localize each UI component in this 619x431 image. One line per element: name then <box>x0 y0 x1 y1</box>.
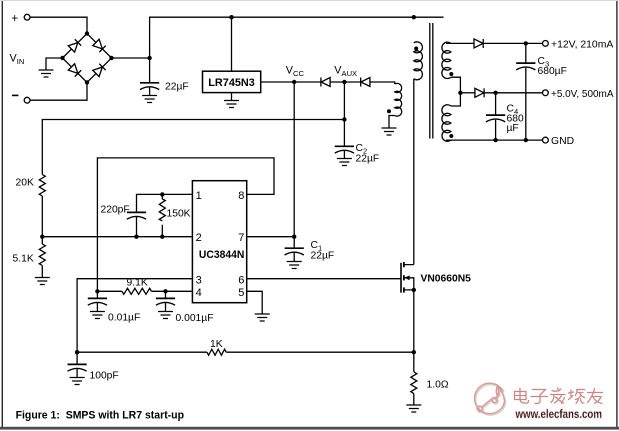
wire Vaux to aux winding <box>370 82 395 84</box>
capacitor 220pF <box>127 212 146 219</box>
wire 0.001uF stubs <box>165 291 167 311</box>
wire C2 bottom stub <box>343 151 345 159</box>
wire pin8 loop <box>97 158 274 291</box>
wire 20K to 5.1K node to pin2 <box>42 196 192 244</box>
svg-text:22µF: 22µF <box>311 251 335 262</box>
wire 100pF stubs <box>76 352 78 377</box>
capacitor C3 <box>516 63 535 70</box>
IC U1 UC3844N box <box>192 181 246 303</box>
wire 5.1K to ground <box>41 266 43 278</box>
transistor Q1 VN0660N5 <box>401 262 414 293</box>
watermark logo <box>475 383 506 415</box>
phase dot aux <box>387 109 391 113</box>
svg-text:7: 7 <box>238 232 244 244</box>
wire pin3 to current sense node <box>77 279 192 353</box>
ground C1 <box>287 262 302 269</box>
top faint edge <box>0 0 619 1</box>
svg-text:5.1K: 5.1K <box>13 254 34 265</box>
wire + terminal to bridge top <box>30 17 87 33</box>
wire gnd rail <box>446 139 543 141</box>
ground pin5 <box>255 314 270 321</box>
primary winding <box>414 42 423 80</box>
phase dot primary <box>414 47 418 51</box>
svg-text:150K: 150K <box>167 209 191 220</box>
wire Vaux down to C2 <box>343 82 345 146</box>
wire sec1 bottom to tap <box>451 77 461 106</box>
svg-text:680µF: 680µF <box>538 66 567 77</box>
wire bridge right node to 22uF node <box>112 57 150 59</box>
wire bridge left node to ground <box>46 58 63 70</box>
diode 5V output <box>475 88 484 97</box>
svg-text:+12V, 210mA: +12V, 210mA <box>551 39 613 50</box>
svg-text:6: 6 <box>238 274 244 286</box>
wire aux winding exit to ground <box>389 116 395 129</box>
svg-text:1K: 1K <box>210 339 223 350</box>
IC pin numbers <box>196 190 245 299</box>
ground 0.001uF <box>158 312 173 319</box>
wire source down to 1 ohm <box>413 290 415 372</box>
svg-text:0.01µF: 0.01µF <box>108 313 140 324</box>
svg-text:9.1K: 9.1K <box>127 278 148 289</box>
IC U2 LR745N3 box <box>203 71 261 92</box>
secondary winding 1 <box>442 42 451 78</box>
ground 22uF input <box>142 96 157 103</box>
wire 22uF node up and top rail <box>150 17 444 58</box>
svg-text:220pF: 220pF <box>101 205 130 216</box>
ground 5.1K <box>35 278 50 285</box>
wire diode to Vaux <box>330 81 360 83</box>
ground 100pF <box>70 378 85 385</box>
left page border <box>2 0 3 429</box>
svg-text:20K: 20K <box>16 178 34 189</box>
watermark text dianzifashaoyou <box>515 388 603 404</box>
wire 150K stubs <box>161 194 163 236</box>
label minus <box>12 94 18 96</box>
svg-text:22µF: 22µF <box>356 154 380 165</box>
capacitor 0.001uF <box>156 298 175 305</box>
ground aux winding <box>382 128 397 135</box>
wire pin4 row <box>97 290 192 292</box>
bottom gray bar <box>0 427 619 430</box>
svg-text:100pF: 100pF <box>90 371 119 382</box>
svg-text:3: 3 <box>196 274 202 286</box>
bridge diode D3 bottom-left <box>68 64 81 77</box>
bridge diode D4 bottom-right <box>93 64 106 77</box>
capacitor 0.01uF <box>88 298 107 305</box>
svg-text:1.0Ω: 1.0Ω <box>427 380 449 391</box>
capacitor C1 <box>285 248 304 255</box>
svg-text:5: 5 <box>238 287 244 299</box>
wire - terminal to bridge bottom <box>30 83 87 101</box>
wire C1 stubs <box>293 237 295 262</box>
svg-text:4: 4 <box>196 287 202 299</box>
svg-text:Figure 1: SMPS with LR7 start: Figure 1: SMPS with LR7 start-up <box>16 410 185 422</box>
diode 12V output <box>474 39 483 48</box>
node junction dots <box>40 15 528 354</box>
wire 12V rail <box>484 42 543 44</box>
right page border <box>616 0 617 429</box>
wire drain up to primary <box>413 79 415 265</box>
resistor 5.1K <box>39 244 45 266</box>
svg-text:LR745N3: LR745N3 <box>208 77 255 89</box>
svg-text:8: 8 <box>238 190 244 202</box>
svg-text:22µF: 22µF <box>165 82 189 93</box>
wire LR745N3 top stub <box>231 17 233 71</box>
wire pin5 to ground <box>247 291 263 314</box>
wire 5V rail <box>485 92 543 94</box>
wire 1 ohm to ground <box>413 394 415 405</box>
bridge diode D2 top-right <box>93 39 106 52</box>
wire pin6 to gate <box>247 278 401 280</box>
resistor 1.0 ohm <box>411 372 417 394</box>
svg-text:µF: µF <box>507 123 519 134</box>
phase dot sec2 <box>449 134 453 138</box>
ground bridge left <box>39 70 54 77</box>
svg-text:0.001µF: 0.001µF <box>176 313 214 324</box>
svg-text:www.elecfans.com: www.elecfans.com <box>515 409 602 421</box>
diode winding to Vaux <box>361 78 370 87</box>
ground 1 ohm <box>406 405 421 412</box>
svg-text:2: 2 <box>196 232 202 244</box>
wire 22uF input stubs <box>149 58 151 96</box>
resistor 20K <box>39 175 45 197</box>
aux winding <box>395 83 402 116</box>
wire divider sense line <box>42 120 344 175</box>
transformer T1 <box>395 23 451 141</box>
wire 1K row <box>77 351 414 353</box>
svg-text:+5.0V, 500mA: +5.0V, 500mA <box>551 89 614 100</box>
wire pin7 <box>247 236 295 238</box>
wire 220pF bottom stub <box>136 217 138 237</box>
svg-text:1: 1 <box>196 190 202 202</box>
svg-text:GND: GND <box>551 136 574 147</box>
wire tap to 5V diode <box>460 92 474 94</box>
capacitor C4 <box>486 115 505 122</box>
terminal circles <box>24 14 548 143</box>
svg-text:UC3844N: UC3844N <box>199 249 245 261</box>
wire pin1 to 220pF and 150K <box>137 194 193 212</box>
svg-text:VN0660N5: VN0660N5 <box>421 273 472 284</box>
wire C4 stubs <box>495 93 497 140</box>
capacitor C2 <box>335 146 354 153</box>
wire sec1 top to 12V diode <box>446 42 474 44</box>
core <box>430 23 433 139</box>
bridge diode D1 top-left <box>68 39 81 52</box>
svg-text:+: + <box>11 11 18 25</box>
ground LR745N3 <box>224 101 239 108</box>
secondary winding 2 <box>442 105 451 142</box>
ground 0.01uF <box>90 312 105 319</box>
resistor 1K <box>207 349 226 355</box>
phase dot sec1 <box>449 72 453 76</box>
capacitor 100pF <box>68 364 87 371</box>
wire C3 stubs <box>525 43 527 140</box>
wire 0.01uF stubs <box>96 291 98 311</box>
resistor 150K <box>159 199 165 221</box>
capacitor 22uF input <box>140 83 159 90</box>
resistor 9.1K <box>122 288 151 294</box>
ground C2 <box>337 159 352 166</box>
wire LR745N3 to ground <box>231 93 233 101</box>
wire Vcc node down to pin7 <box>293 82 295 237</box>
wire LR745N3 output to Vcc <box>261 81 321 83</box>
diode Vaux to Vcc <box>321 78 330 87</box>
bridge diamond wires <box>63 34 112 83</box>
